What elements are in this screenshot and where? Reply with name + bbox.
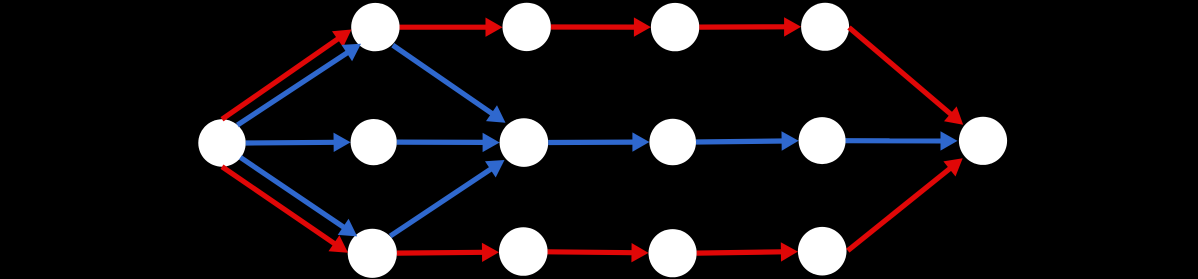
- node T3: [651, 3, 699, 51]
- node M1: [351, 119, 397, 165]
- red edge S-B1: [222, 167, 348, 253]
- blue edge B1-M2: [390, 160, 504, 236]
- red edge T4-E: [849, 28, 963, 125]
- node T2: [503, 3, 551, 51]
- node S: [198, 119, 245, 166]
- blue edge S-T1: [237, 44, 361, 125]
- node E: [959, 117, 1007, 165]
- blue edge M1-M2: [397, 133, 500, 152]
- blue edge M4-E: [846, 131, 958, 150]
- red edge T3-T4: [699, 17, 801, 36]
- red edge B3-B4: [697, 242, 798, 261]
- node B3: [649, 229, 697, 277]
- blue edge S-B1: [240, 157, 357, 236]
- node T4: [801, 3, 849, 51]
- node T1: [351, 3, 399, 51]
- red edge S-T1: [222, 30, 352, 120]
- blue edge S-M1: [246, 133, 351, 152]
- node B2: [499, 227, 548, 276]
- red edge B1-B2: [397, 243, 499, 262]
- red edge T2-T3: [551, 17, 651, 36]
- node B4: [798, 227, 847, 276]
- blue edge T1-M2: [393, 45, 506, 123]
- red edge B2-B3: [548, 243, 649, 262]
- node M3: [649, 119, 696, 166]
- node M4: [799, 117, 846, 164]
- red edge T1-T2: [400, 18, 503, 37]
- red edge B4-E: [848, 158, 963, 250]
- node M2: [500, 118, 549, 167]
- node B1: [348, 229, 397, 278]
- blue edge M2-M3: [548, 132, 649, 151]
- blue edge M3-M4: [696, 131, 799, 150]
